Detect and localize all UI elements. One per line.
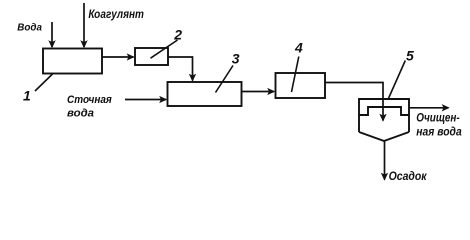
svg-text:ная вода: ная вода (416, 124, 462, 138)
filter box 4 (276, 73, 326, 98)
leader line 4 (292, 57, 299, 93)
wire sludge arrow (384, 141, 386, 180)
mixer box 1 (43, 49, 102, 74)
pump box 2 (135, 48, 168, 65)
svg-text:2: 2 (173, 27, 182, 43)
leader line 3 (216, 66, 234, 93)
svg-text:Очищен-: Очищен- (416, 110, 459, 124)
svg-text:Сточная: Сточная (67, 94, 112, 106)
leader line 1 (35, 74, 53, 91)
wire box4 to settler feed pipe (325, 83, 383, 121)
svg-text:1: 1 (23, 88, 31, 104)
svg-text:вода: вода (67, 108, 94, 120)
settler 5 outline (359, 99, 409, 141)
wire clean water arrow (409, 107, 449, 109)
wire box3 to box4 (242, 91, 275, 93)
svg-text:3: 3 (232, 51, 240, 67)
svg-text:4: 4 (294, 40, 303, 56)
tank box 3 (168, 82, 242, 106)
svg-text:Коагулянт: Коагулянт (88, 7, 144, 21)
wire water feed arrow (51, 22, 53, 47)
wire box1 to box2 (102, 56, 134, 58)
svg-text:Вода: Вода (17, 21, 42, 33)
svg-text:5: 5 (406, 48, 414, 64)
wire box2 to box3 (168, 57, 193, 81)
leader line 2 (151, 40, 178, 58)
settler inner launder (359, 107, 409, 115)
svg-text:Осадок: Осадок (389, 171, 428, 183)
wire wastewater arrow (125, 99, 166, 101)
wire coagulant feed arrow (83, 3, 85, 47)
leader line 5 (388, 61, 405, 100)
